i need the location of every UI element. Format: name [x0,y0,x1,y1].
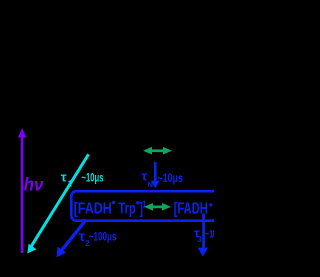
svg-text:Trp: Trp [118,201,135,218]
state label [FADH. Trp.]1 (blue) [74,199,147,217]
svg-text:τ: τ [141,169,147,184]
state label [FADH. (blue, clipped at right edge) [174,201,213,218]
svg-text:~100μs: ~100μs [89,229,117,243]
svg-text:hν: hν [24,174,44,194]
svg-text:N: N [148,180,153,189]
label tau3 ~1m (blue, clipped at right edge) [194,225,215,244]
svg-text:~1: ~1 [205,228,214,240]
svg-text:1: 1 [68,180,73,189]
svg-text:~10μs: ~10μs [157,171,183,185]
excitation arrow (purple, up) [18,128,26,253]
svg-text:1: 1 [143,199,147,210]
decay arrow tau3 (blue, down from box bottom right) [198,214,209,257]
label tau1 ~10us (cyan) [61,169,104,188]
spin interconversion arrow (green, in box) [144,203,171,211]
svg-text:[FADH: [FADH [74,201,112,218]
label tauN ~10us (blue) [141,169,183,189]
svg-text:~10μs: ~10μs [82,172,104,184]
label tau2 ~100us (blue) [79,228,117,248]
svg-text:3: 3 [197,235,202,244]
spin interconversion arrow (green, top) [143,147,172,155]
decay path tau1 (cyan diagonal arrow, down-left) [27,154,90,254]
decay arrow tau2 (blue diagonal, down-left from box) [57,221,86,258]
relaxation arrow tauN (blue, down onto box) [151,162,160,188]
radical pair state box [71,191,229,221]
svg-text:τ: τ [61,169,67,184]
